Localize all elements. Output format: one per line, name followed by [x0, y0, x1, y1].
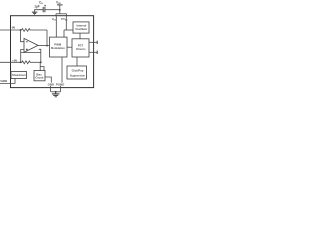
wire VDD down into PWM block: [55, 16, 57, 37]
ground (top, bypass cap): [32, 12, 37, 15]
plus sign: [26, 48, 28, 50]
wire output positive: [89, 41, 97, 43]
op-amp U1: [24, 38, 38, 52]
svg-text:Shutdown: Shutdown: [12, 73, 26, 77]
FET drivers block: [72, 39, 89, 57]
wire bias path: [31, 61, 41, 63]
wire feedback vertical: [46, 30, 48, 46]
plus polarity mark: [44, 5, 46, 7]
capacitor CB plates: [43, 7, 45, 12]
wire ground to capacitor: [35, 10, 43, 12]
wire bias node down to Bias Circuit: [39, 62, 41, 70]
junction dot feedback/output: [46, 45, 48, 47]
svg-text:Oscillator: Oscillator: [75, 27, 87, 31]
wire +IN up to noninverting input: [21, 50, 24, 63]
wire feedback top: [31, 29, 48, 31]
wire capacitor to VDD line: [45, 9, 60, 11]
svg-text:1µF: 1µF: [34, 4, 40, 8]
click/pop suppression block: [67, 66, 87, 79]
wire bias node up: [39, 49, 41, 62]
svg-text:Drivers: Drivers: [76, 47, 86, 51]
wire bias to ground jog: [40, 67, 51, 83]
svg-text:-IN: -IN: [11, 26, 16, 30]
wire -IN to inverting input: [21, 30, 25, 42]
bias circuit block: [34, 71, 45, 81]
wire PGND stub: [60, 86, 62, 92]
svg-text:Suppression: Suppression: [70, 74, 86, 78]
resistor feedback (zigzag top): [21, 29, 31, 32]
pin tick output positive: [96, 41, 98, 44]
wire GND stub: [50, 86, 52, 92]
wire PVDD down: [65, 16, 67, 30]
wire branch down into PWM top: [63, 30, 65, 37]
VDD vertical wire: [59, 5, 61, 14]
junction dot -IN node: [20, 29, 22, 31]
IC outer box: [11, 16, 94, 88]
wire -IN input: [0, 29, 21, 31]
wire PVDD horizontal to oscillator: [64, 29, 73, 31]
internal oscillator block: [73, 22, 89, 33]
wire stub to VDD pin: [55, 14, 57, 16]
ground (bottom): [52, 92, 60, 97]
svg-text:Circuit: Circuit: [35, 76, 43, 80]
wire output negative: [89, 51, 97, 53]
wire stub to PVDD pin: [66, 14, 68, 16]
wire ground bar: [51, 91, 61, 93]
PWM modulation block: [50, 37, 68, 57]
wire under op-amp: [21, 52, 41, 54]
junction dot +IN node: [20, 61, 22, 63]
svg-text:SHDN: SHDN: [0, 80, 7, 83]
resistor bias (zigzag bottom): [21, 61, 31, 64]
wire op-amp output: [38, 45, 50, 47]
wire FET drivers to click/pop: [76, 57, 78, 66]
junction dot VDD/cap: [59, 9, 61, 11]
svg-text:GND: GND: [48, 82, 55, 86]
svg-text:Click/Pop: Click/Pop: [72, 68, 84, 72]
junction dot bias node: [40, 61, 42, 63]
svg-text:Modulation: Modulation: [51, 46, 65, 50]
shutdown block: [11, 72, 27, 79]
wire oscillator to FET drivers: [79, 33, 81, 39]
svg-text:PVDD: PVDD: [61, 17, 68, 22]
pin tick output negative: [96, 51, 98, 54]
wire SHDN input: [0, 79, 15, 84]
wire PWM down to PGND: [61, 57, 63, 83]
wire supply split bar: [56, 13, 67, 15]
wire +IN input: [0, 61, 21, 63]
minus sign: [26, 41, 28, 43]
svg-text:VDD: VDD: [56, 0, 62, 5]
wire PWM to FET drivers: [67, 46, 72, 48]
junction dot ground: [55, 91, 57, 93]
VDD supply bar: [57, 4, 63, 6]
